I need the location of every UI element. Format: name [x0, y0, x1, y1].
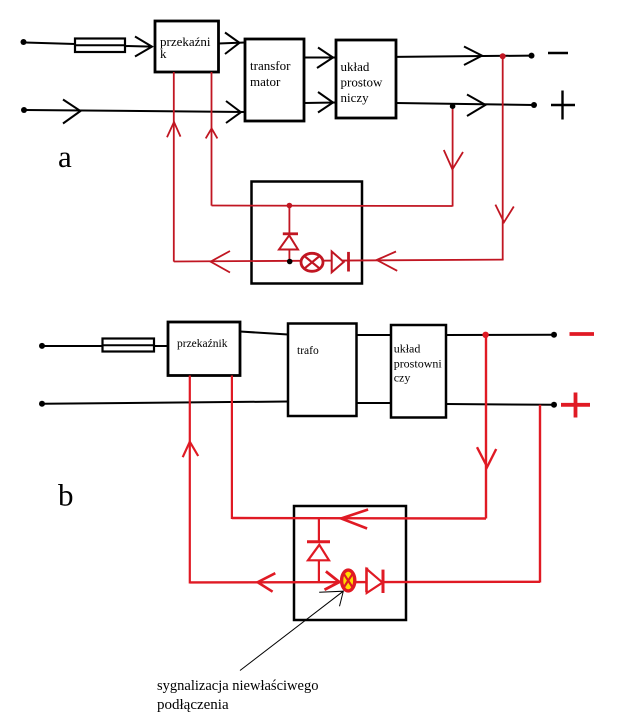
- node: red junction on top line (a): [287, 203, 293, 209]
- node: plus output terminal (a): [531, 102, 537, 108]
- arrow: up on left red vertical (a): [167, 122, 181, 137]
- wire: top input line to relay (b): [43, 345, 168, 347]
- block: indicator box outline (a): [252, 182, 363, 284]
- wire: plus output line (b): [446, 403, 554, 406]
- svg-text:niczy: niczy: [341, 90, 370, 105]
- diode D2 horizontal (a): [332, 252, 349, 273]
- arrow: down on minus feedback vertical (a): [495, 205, 513, 223]
- svg-text:podłączenia: podłączenia: [157, 697, 229, 713]
- wire: red vertical from plus line (b): [539, 405, 541, 583]
- arrow: left on bottom line outside box left (a): [211, 251, 230, 273]
- wire: trafo to rectifier bottom (b): [357, 402, 392, 404]
- wire: minus output line (a): [396, 56, 531, 57]
- node: left input terminal top (b): [39, 343, 45, 349]
- diode D4 horizontal (b): [367, 568, 383, 593]
- svg-text:sygnalizacja niewłaściwego: sygnalizacja niewłaściwego: [157, 678, 318, 694]
- wire: relay to transformer (a): [219, 43, 246, 44]
- wire: red top line into indicator box (a): [212, 205, 453, 208]
- node: plus output terminal (b): [551, 402, 557, 408]
- arrow: on minus output (a): [464, 47, 482, 66]
- wire: red vertical from minus line (b): [485, 335, 487, 519]
- svg-text:układ: układ: [394, 341, 421, 355]
- wire: bottom input line (a): [25, 110, 245, 112]
- wire: relay to trafo (b): [240, 332, 288, 335]
- wire: red bottom line of indicator (b): [190, 581, 540, 584]
- svg-text:trafo: trafo: [297, 345, 319, 357]
- node: red junction on minus output (b): [482, 332, 488, 338]
- block: transformator T1 (a): [245, 39, 304, 121]
- wire: red vertical from plus line (a): [452, 106, 454, 207]
- wire: trafo to rectifier top (b): [357, 334, 392, 336]
- label: plus sign (a): [551, 91, 575, 120]
- node: red junction on minus output (a): [500, 53, 506, 59]
- node: minus output terminal (b): [551, 332, 557, 338]
- arrow: into transformer top (a): [225, 33, 240, 55]
- arrow: rectifier input top (a): [317, 48, 333, 69]
- arrow: left on bottom line right of box (a): [377, 252, 398, 271]
- block: trafo T2 (b): [288, 324, 357, 417]
- svg-text:przekaźni: przekaźni: [160, 34, 211, 49]
- node: minus output terminal (a): [529, 53, 535, 59]
- fuse F1 (a): [75, 39, 125, 53]
- svg-text:a: a: [58, 139, 72, 174]
- annotation: pointer line to lamp: [240, 591, 343, 670]
- diode D3 vertical (b): [307, 519, 330, 583]
- node: black junction on plus output (a): [450, 103, 456, 109]
- arrow: on plus output (a): [467, 95, 486, 117]
- arrow: rectifier input bottom (a): [318, 92, 333, 113]
- arrow: up on right red vertical (a): [206, 128, 218, 138]
- wire: red vertical relay feedback left (a): [173, 72, 175, 262]
- block: uklad prostowniczy U4 (b): [391, 325, 446, 418]
- svg-text:układ: układ: [341, 59, 370, 74]
- node: black junction on bottom line (a): [287, 259, 293, 265]
- block: uklad prostowniczy U2 (a): [336, 40, 396, 118]
- wire: minus output line (b): [446, 334, 554, 336]
- arrow: into transformer bottom (a): [226, 101, 241, 123]
- svg-text:transfor: transfor: [250, 58, 291, 73]
- arrow: down on minus feedback vertical (b): [477, 447, 496, 467]
- svg-text:b: b: [58, 478, 74, 513]
- label: plus sign red (b): [561, 393, 590, 418]
- lamp L1 (a): [301, 253, 323, 271]
- arrow: right into lamp (b): [325, 571, 340, 589]
- lamp L2 signal lamp (b): [342, 570, 355, 591]
- wire: red vertical to relay left (b): [189, 376, 191, 584]
- node: left input terminal top (a): [21, 39, 27, 45]
- block: przekaznik U3 (b): [168, 322, 240, 376]
- wire: red vertical from minus line (a): [502, 56, 504, 259]
- wire: plus output line (a): [396, 103, 534, 105]
- arrow: up on left red vertical (b): [183, 442, 199, 458]
- fuse F2 (b): [103, 339, 155, 352]
- wire: red vertical to relay right (b): [231, 376, 233, 520]
- node: left input terminal bottom (b): [39, 401, 45, 407]
- svg-text:przekaźnik: przekaźnik: [177, 338, 228, 350]
- label: sygnalizacja caption: [157, 678, 318, 713]
- svg-text:k: k: [160, 46, 167, 61]
- svg-text:czy: czy: [394, 370, 411, 384]
- svg-text:mator: mator: [250, 74, 281, 89]
- arrow: down on plus feedback vertical (a): [444, 150, 463, 169]
- wire: red bottom line of indicator (a): [174, 260, 504, 262]
- block: indicator box outline (b): [294, 506, 406, 620]
- diode D1 vertical (a): [279, 206, 298, 262]
- arrow: into relay (a): [135, 37, 152, 57]
- label: minus sign (a): [548, 52, 568, 55]
- node: left input terminal bottom (a): [21, 107, 27, 113]
- arrow: left on red bottom line (b): [258, 573, 276, 592]
- block: przekaznik U1 (a): [155, 21, 219, 72]
- wire: red top line of indicator (b): [232, 517, 486, 520]
- wire: transformer to rectifier bottom (a): [304, 102, 336, 105]
- svg-text:prostow: prostow: [341, 75, 384, 90]
- wire: top input line to relay (a): [25, 43, 152, 47]
- wire: transformer to rectifier top (a): [304, 57, 336, 59]
- svg-text:prostowni: prostowni: [394, 356, 443, 370]
- wire: red vertical relay feedback right (a): [211, 72, 213, 206]
- arrow: on bottom input line (a): [63, 100, 81, 124]
- label: minus sign red (b): [570, 332, 595, 336]
- arrow: left on red top line (b): [341, 510, 368, 529]
- wire: bottom input line (b): [43, 402, 288, 404]
